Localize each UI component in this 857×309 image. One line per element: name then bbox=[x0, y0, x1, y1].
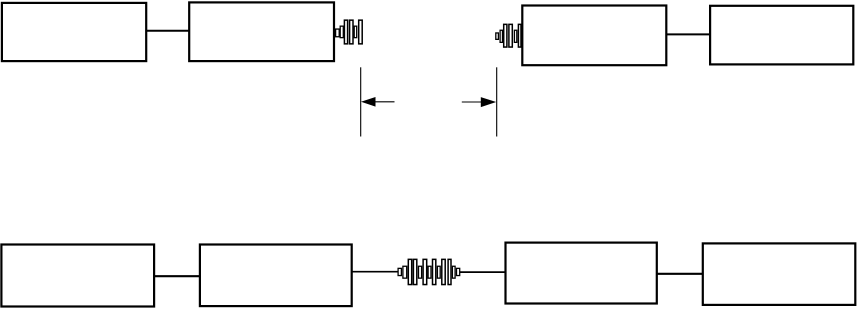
wire mated connector to U7 bbox=[460, 271, 506, 273]
box U8 (bottom row, fourth unit) bbox=[703, 243, 856, 305]
box U2 (top row, second unit) bbox=[189, 2, 334, 61]
arrow pointing left at left dimension line bbox=[361, 97, 395, 107]
wire U6 to mated connector bbox=[352, 271, 398, 273]
box U5 (bottom row, first unit) bbox=[1, 245, 154, 307]
connector plug P1 (right face of U2) bbox=[336, 20, 363, 44]
box U6 (bottom row, second unit) bbox=[200, 245, 352, 307]
wire U5-U6 bbox=[154, 275, 200, 277]
mated connector pair J1 (bottom row center) bbox=[398, 259, 460, 284]
box U1 (top row, first unit) bbox=[2, 3, 146, 61]
wire U3-U4 bbox=[667, 33, 711, 35]
box U4 (top row, fourth unit) bbox=[710, 6, 853, 65]
wire U1-U2 bbox=[146, 30, 189, 32]
box U3 (top row, third unit) bbox=[522, 6, 666, 66]
arrow pointing right at right dimension line bbox=[462, 97, 496, 107]
dimension line left bbox=[360, 67, 362, 136]
wire U7-U8 bbox=[657, 273, 703, 275]
connector plug P2 (left face of U3, stub facing out) bbox=[496, 24, 521, 47]
dimension line right bbox=[496, 67, 498, 136]
box U7 (bottom row, third unit) bbox=[506, 243, 657, 304]
